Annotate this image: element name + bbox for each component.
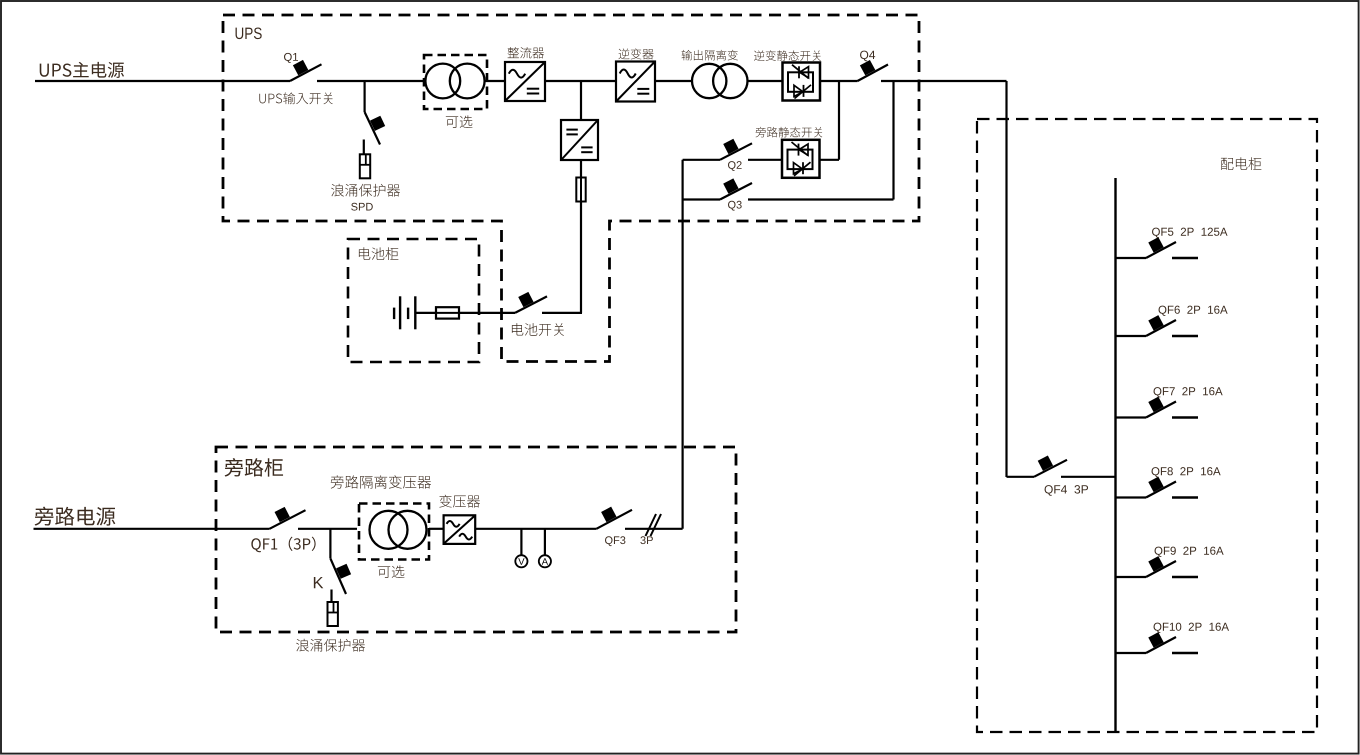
wire rectifier to inverter — [545, 80, 616, 82]
label 输出隔离变 — [682, 50, 738, 61]
enclosure UPS cabinet — [223, 15, 919, 362]
wire QF5 stub — [1116, 257, 1147, 259]
label 整流器 — [508, 47, 545, 58]
label 可选2 — [378, 565, 405, 578]
enclosure optional transformer box — [424, 55, 487, 109]
breaker QF8 — [1146, 477, 1176, 498]
label 逆变静态开关 — [754, 50, 821, 61]
wire Q2 stub — [683, 159, 720, 161]
wire K branch drop — [329, 529, 331, 559]
label Q2 — [728, 161, 742, 171]
label UPS输入开关 — [259, 92, 332, 104]
breaker Q3 — [720, 178, 752, 199]
label Q3 — [728, 201, 742, 211]
voltmeter PV — [515, 555, 527, 567]
breaker QF7 — [1146, 397, 1176, 418]
wire T1 to rectifier — [484, 80, 505, 82]
label QF9 rating — [1155, 547, 1224, 557]
label Q4 — [860, 51, 875, 62]
label 变压器 — [439, 495, 480, 508]
label QF1(3P) — [251, 537, 315, 553]
wire bypass riser — [681, 160, 683, 529]
wire T3 to transformer box — [429, 528, 444, 530]
label QF5 rating — [1152, 228, 1228, 238]
label QF8 rating — [1152, 467, 1221, 477]
static switch inverter SS — [783, 63, 821, 101]
enclosure distribution cabinet — [977, 119, 1317, 732]
label QF7 rating — [1154, 387, 1223, 397]
converter DC/DC converter U3 — [561, 120, 598, 160]
wire Q1 to transformer — [317, 80, 426, 82]
surge arrester SPD2 — [328, 602, 338, 626]
converter rectifier U1 — [505, 62, 545, 101]
wire SPD branch drop — [364, 81, 366, 112]
wire A meter stub — [544, 529, 546, 556]
breaker QF9 — [1146, 556, 1176, 577]
breaker QF6 — [1146, 315, 1176, 336]
wire QF10 stub — [1116, 652, 1147, 654]
label UPS — [236, 27, 262, 39]
breaker QF10 — [1146, 632, 1176, 653]
label 电池柜 — [359, 247, 398, 260]
wire battery switch to fuse — [459, 312, 515, 314]
label UPS主电源 — [40, 62, 124, 78]
breaker QF5 — [1146, 237, 1176, 258]
ammeter PA — [539, 555, 551, 567]
wire QF6 stub — [1116, 335, 1147, 337]
label 旁路电源 — [35, 507, 116, 526]
wire Q4 to output corner — [881, 80, 1007, 82]
breaker QF3 — [596, 507, 632, 529]
wire QF5 out — [1172, 257, 1198, 260]
wire QF4 feed — [1007, 476, 1035, 478]
wire main source — [35, 80, 290, 82]
wire Q3 long wire — [748, 198, 894, 200]
transformer T1 optional — [425, 64, 484, 99]
3P slash marks — [646, 514, 662, 536]
breaker QF4 — [1034, 456, 1067, 477]
wire QF3 out — [625, 528, 683, 530]
breaker Q1 — [290, 60, 322, 81]
wire QF4 out — [1061, 476, 1116, 478]
label 逆变器 — [618, 48, 653, 59]
wire inverter to T2 — [655, 80, 692, 82]
breaker SPD switch — [365, 112, 386, 145]
breaker QF1 — [270, 507, 306, 529]
label QF6 rating — [1159, 306, 1228, 316]
label QF3 — [605, 536, 625, 546]
wire bypass source — [34, 528, 270, 530]
label SPD — [351, 203, 373, 211]
wire bus — [1114, 178, 1116, 731]
enclosure battery cabinet — [348, 239, 479, 362]
label QF4 3P — [1045, 485, 1088, 496]
breaker Q4 — [858, 60, 889, 81]
converter voltage transformer U4 — [444, 515, 476, 544]
label 浪涌保护器 — [331, 184, 400, 197]
label 旁路静态开关 — [756, 127, 823, 137]
label 浪涌保护器2 — [296, 639, 365, 652]
wire QF7 stub — [1116, 416, 1147, 418]
wire V meter stub — [520, 529, 522, 556]
wire QF9 stub — [1116, 576, 1147, 578]
converter inverter U2 — [616, 62, 655, 102]
enclosure bypass transformer box — [359, 504, 429, 560]
label Q1 — [284, 53, 298, 63]
label 配电柜 — [1221, 157, 1261, 170]
wire QF7 out — [1172, 416, 1198, 419]
wire battery to fuse — [415, 312, 437, 314]
wire QF6 out — [1172, 335, 1198, 338]
label K — [314, 577, 323, 588]
wire Q3 riser — [892, 81, 894, 200]
wire QF8 stub — [1116, 496, 1147, 498]
label 旁路柜 — [225, 458, 283, 477]
wire Q2 right wire — [748, 159, 782, 161]
wire QF8 out — [1172, 496, 1198, 499]
breaker Q2 — [720, 139, 752, 160]
wire QF10 out — [1172, 652, 1198, 655]
wire battery riser lower — [580, 201, 582, 313]
wire QF1 to T3 — [298, 528, 357, 530]
label 电池开关 — [512, 323, 564, 336]
fuse F1 — [576, 178, 585, 202]
wire SS to Q4 — [820, 80, 858, 82]
surge arrester SPD1 — [360, 154, 370, 178]
transformer T3 bypass isolation — [370, 511, 427, 549]
wire K lower stub — [330, 590, 332, 603]
wire QF9 out — [1172, 576, 1198, 579]
wire battery riser corner — [542, 312, 582, 314]
wire SS output riser — [838, 81, 840, 160]
static switch bypass SS — [782, 140, 820, 178]
fuse F2 — [436, 307, 459, 318]
battery BT — [394, 296, 415, 329]
wire DC link drop — [580, 81, 582, 120]
label 旁路隔离变压器 — [331, 475, 431, 488]
breaker battery switch — [515, 292, 547, 313]
breaker K switch — [330, 558, 351, 594]
transformer T2 output isolation — [692, 64, 748, 98]
label 可选 — [446, 115, 473, 128]
wire transformer to QF3 — [475, 528, 596, 530]
wire SPD lower stub — [363, 140, 365, 155]
wire battery riser upper — [580, 160, 582, 178]
label 3P — [640, 536, 652, 544]
wire bypass SS out — [820, 159, 839, 161]
wire Q3 stub — [683, 198, 720, 200]
wire T2 to inverter static switch — [747, 80, 782, 82]
enclosure bypass cabinet — [216, 447, 736, 632]
label QF10 rating — [1154, 623, 1230, 633]
wire output drop — [1005, 81, 1007, 477]
